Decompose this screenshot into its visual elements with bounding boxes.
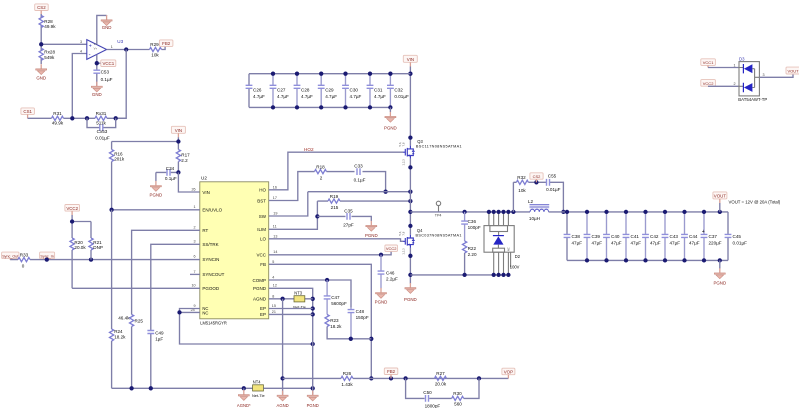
svg-text:1.43k: 1.43k	[341, 382, 353, 387]
svg-text:FB2: FB2	[387, 369, 396, 374]
svg-text:HO: HO	[259, 188, 266, 193]
svg-text:2.2µF: 2.2µF	[386, 276, 398, 281]
svg-text:BSC117N08NS5ATMA1: BSC117N08NS5ATMA1	[416, 145, 462, 149]
svg-text:47µF: 47µF	[689, 241, 700, 246]
svg-text:0.01µF: 0.01µF	[546, 187, 561, 192]
svg-text:L2: L2	[528, 199, 534, 204]
svg-text:26: 26	[192, 187, 196, 191]
svg-text:PGND: PGND	[150, 193, 163, 198]
svg-text:49.9k: 49.9k	[44, 24, 56, 29]
svg-text:R24: R24	[114, 329, 123, 334]
svg-text:PGND: PGND	[404, 297, 417, 302]
svg-text:BAT54AWT-TP: BAT54AWT-TP	[738, 97, 767, 102]
svg-text:VIN: VIN	[175, 128, 182, 133]
svg-text:R22: R22	[468, 246, 477, 251]
svg-text:VOP: VOP	[504, 369, 513, 374]
svg-text:R26: R26	[343, 371, 352, 376]
svg-text:-: -	[89, 53, 91, 59]
svg-text:2.2: 2.2	[181, 158, 188, 163]
svg-text:GND: GND	[92, 92, 102, 97]
svg-text:R30: R30	[453, 391, 462, 396]
svg-text:SYNCIN: SYNCIN	[202, 257, 219, 262]
svg-text:NC: NC	[202, 310, 208, 315]
svg-text:4: 4	[272, 276, 274, 280]
svg-text:LO: LO	[260, 237, 267, 242]
svg-text:Net-Tie: Net-Tie	[252, 393, 265, 398]
svg-text:R23: R23	[330, 318, 339, 323]
svg-text:20.0k: 20.0k	[435, 382, 447, 387]
svg-text:C27: C27	[277, 88, 286, 93]
svg-text:RT: RT	[202, 228, 208, 233]
svg-text:NC: NC	[507, 247, 511, 251]
svg-text:47µF: 47µF	[670, 241, 681, 246]
svg-text:+: +	[89, 43, 92, 49]
svg-text:2: 2	[194, 226, 196, 230]
svg-text:6: 6	[194, 255, 196, 259]
svg-text:7: 7	[194, 270, 196, 274]
svg-text:BSC037N08NS5ATMA1: BSC037N08NS5ATMA1	[416, 234, 462, 238]
svg-text:Q4: Q4	[417, 228, 423, 233]
svg-text:10µH: 10µH	[529, 216, 540, 221]
svg-text:+: +	[702, 229, 705, 235]
svg-text:10: 10	[192, 284, 196, 288]
svg-text:C40: C40	[611, 234, 620, 239]
svg-text:BST: BST	[257, 198, 266, 203]
svg-text:FB: FB	[260, 262, 266, 267]
svg-text:12: 12	[273, 284, 277, 288]
svg-text:C26: C26	[253, 88, 262, 93]
svg-text:4.7µF: 4.7µF	[277, 94, 289, 99]
svg-text:1µF: 1µF	[155, 337, 163, 342]
svg-text:0.01µF: 0.01µF	[733, 241, 748, 246]
svg-text:R21: R21	[93, 240, 102, 245]
svg-text:R25: R25	[135, 319, 144, 324]
svg-text:3: 3	[80, 40, 82, 44]
svg-text:215: 215	[331, 205, 339, 210]
svg-text:3: 3	[763, 73, 765, 77]
svg-text:C42: C42	[650, 234, 659, 239]
svg-text:R32: R32	[517, 175, 526, 180]
svg-text:0.1µF: 0.1µF	[165, 176, 177, 181]
svg-text:4.7µF: 4.7µF	[350, 94, 362, 99]
svg-text:CS2: CS2	[533, 174, 542, 179]
svg-text:C55: C55	[548, 173, 557, 178]
svg-text:1: 1	[734, 63, 736, 67]
svg-text:U2: U2	[201, 176, 207, 181]
svg-text:Rx28: Rx28	[44, 50, 55, 55]
svg-text:ILIM: ILIM	[257, 227, 266, 232]
svg-text:C28: C28	[301, 88, 310, 93]
svg-text:COMP: COMP	[253, 278, 267, 283]
svg-text:DNP: DNP	[93, 245, 103, 250]
svg-text:V+: V+	[94, 46, 98, 50]
svg-text:SW: SW	[259, 214, 267, 219]
svg-text:4.7µF: 4.7µF	[325, 94, 337, 99]
svg-text:16: 16	[273, 185, 277, 189]
svg-text:C46: C46	[386, 270, 395, 275]
svg-text:0.1µF: 0.1µF	[101, 77, 113, 82]
svg-text:C29: C29	[325, 88, 334, 93]
svg-text:EP: EP	[260, 312, 266, 317]
svg-text:21: 21	[272, 310, 276, 314]
svg-text:EN/UVLO: EN/UVLO	[202, 208, 222, 213]
svg-text:PGND: PGND	[384, 126, 397, 131]
svg-text:PGND: PGND	[365, 233, 378, 238]
svg-text:0.01µF: 0.01µF	[95, 135, 110, 140]
svg-text:C44: C44	[689, 234, 698, 239]
svg-text:PGND: PGND	[307, 403, 319, 408]
svg-text:U3: U3	[117, 39, 123, 44]
svg-text:47µF: 47µF	[611, 241, 622, 246]
svg-text:NT4: NT4	[253, 379, 261, 384]
svg-text:C30: C30	[350, 88, 359, 93]
svg-text:VCC2: VCC2	[66, 206, 78, 211]
svg-text:1800pF: 1800pF	[425, 404, 441, 408]
svg-text:AGND: AGND	[253, 297, 267, 302]
svg-text:18.2k: 18.2k	[330, 324, 342, 329]
svg-text:4.7µF: 4.7µF	[253, 94, 265, 99]
svg-text:3: 3	[194, 240, 196, 244]
svg-text:D2: D2	[515, 254, 521, 259]
svg-text:C33: C33	[354, 163, 363, 168]
svg-text:0: 0	[22, 263, 25, 268]
svg-text:47µF: 47µF	[650, 241, 661, 246]
svg-text:201k: 201k	[114, 157, 125, 162]
svg-text:47µF: 47µF	[592, 241, 603, 246]
svg-text:EP: EP	[260, 306, 266, 311]
svg-text:Rx31: Rx31	[96, 111, 107, 116]
svg-text:PGND: PGND	[375, 299, 388, 304]
svg-text:560: 560	[454, 401, 462, 406]
svg-text:8: 8	[272, 294, 274, 298]
svg-text:LM5145RGYR: LM5145RGYR	[200, 321, 227, 326]
svg-text:C49: C49	[155, 331, 164, 336]
svg-text:10k: 10k	[518, 188, 526, 193]
svg-text:47µF: 47µF	[631, 241, 642, 246]
svg-text:Sync_Out: Sync_Out	[2, 254, 18, 258]
svg-text:VCC: VCC	[256, 253, 266, 258]
svg-text:11: 11	[273, 225, 277, 229]
svg-text:C50: C50	[423, 390, 432, 395]
svg-text:HO2: HO2	[304, 147, 314, 152]
svg-text:13: 13	[273, 234, 277, 238]
svg-text:0.1µF: 0.1µF	[354, 177, 366, 182]
svg-text:VOUT: VOUT	[714, 194, 727, 199]
svg-text:0.01µF: 0.01µF	[394, 94, 409, 99]
svg-text:C47: C47	[331, 295, 340, 300]
svg-text:15: 15	[272, 304, 276, 308]
svg-text:R27: R27	[436, 371, 445, 376]
svg-text:1: 1	[111, 45, 113, 49]
svg-text:VCC1: VCC1	[703, 60, 714, 65]
svg-text:2: 2	[734, 82, 736, 86]
svg-text:GND: GND	[36, 76, 46, 81]
svg-text:AGND: AGND	[277, 403, 289, 408]
svg-text:1,2,3: 1,2,3	[402, 159, 406, 166]
svg-text:100V: 100V	[510, 265, 520, 270]
svg-text:20.0k: 20.0k	[74, 245, 86, 250]
svg-text:VIN: VIN	[202, 190, 210, 195]
svg-text:46.4k: 46.4k	[118, 316, 130, 321]
svg-text:C36: C36	[468, 219, 477, 224]
svg-text:R28: R28	[44, 19, 53, 24]
svg-text:1: 1	[194, 205, 196, 209]
svg-text:VOUT = 12V @ 20A (Total): VOUT = 12V @ 20A (Total)	[729, 200, 781, 205]
svg-text:R18: R18	[316, 164, 325, 169]
svg-text:C34: C34	[166, 166, 175, 171]
svg-text:7,8: 7,8	[401, 142, 405, 146]
svg-text:C43: C43	[670, 234, 679, 239]
svg-text:220µF: 220µF	[709, 241, 722, 246]
svg-text:1,2,3: 1,2,3	[402, 248, 406, 255]
svg-text:7,8: 7,8	[401, 231, 405, 235]
svg-text:100pF: 100pF	[468, 225, 481, 230]
svg-text:18.2k: 18.2k	[114, 335, 126, 340]
svg-text:FB2: FB2	[162, 41, 171, 46]
svg-text:CS2: CS2	[37, 5, 46, 10]
svg-text:R19: R19	[330, 194, 339, 199]
svg-text:2.20: 2.20	[468, 252, 477, 257]
svg-text:C37: C37	[709, 234, 718, 239]
svg-text:NT3: NT3	[294, 291, 302, 296]
svg-text:SS/TRK: SS/TRK	[202, 242, 218, 247]
svg-text:49.9k: 49.9k	[52, 121, 64, 126]
svg-text:GND: GND	[102, 25, 112, 30]
svg-text:C45: C45	[733, 234, 742, 239]
svg-text:C31: C31	[374, 88, 383, 93]
svg-text:VCC1: VCC1	[102, 61, 114, 66]
svg-text:PGND: PGND	[253, 286, 267, 291]
svg-text:5600pF: 5600pF	[331, 301, 347, 306]
svg-text:14: 14	[273, 250, 277, 254]
svg-text:Q3: Q3	[417, 139, 423, 144]
svg-text:TP4: TP4	[435, 214, 442, 218]
svg-text:C35: C35	[344, 208, 353, 213]
svg-text:R29: R29	[150, 42, 159, 47]
svg-text:150pF: 150pF	[356, 315, 369, 320]
svg-text:4: 4	[80, 49, 82, 53]
svg-text:VIN: VIN	[407, 57, 414, 62]
svg-text:2: 2	[320, 176, 323, 181]
svg-text:549k: 549k	[44, 55, 55, 60]
svg-text:511k: 511k	[96, 121, 106, 126]
svg-text:R31: R31	[53, 111, 62, 116]
svg-text:C32: C32	[394, 88, 403, 93]
svg-text:PGND: PGND	[713, 281, 726, 286]
svg-text:5: 5	[272, 260, 274, 264]
svg-text:VCC2: VCC2	[386, 246, 397, 251]
svg-text:47µF: 47µF	[572, 241, 583, 246]
svg-text:C48: C48	[356, 309, 365, 314]
svg-text:C53: C53	[101, 69, 110, 74]
svg-text:VCC2: VCC2	[703, 81, 714, 86]
svg-text:C41: C41	[631, 234, 640, 239]
svg-text:VOUT: VOUT	[787, 69, 799, 74]
svg-text:R20: R20	[74, 240, 83, 245]
svg-text:CS1: CS1	[23, 109, 32, 114]
svg-text:4.7µF: 4.7µF	[301, 94, 313, 99]
svg-text:C38: C38	[572, 234, 581, 239]
svg-text:R16: R16	[114, 151, 123, 156]
svg-text:17: 17	[273, 196, 277, 200]
svg-text:R17: R17	[181, 152, 190, 157]
svg-text:AGND*: AGND*	[237, 403, 251, 408]
svg-text:D3: D3	[739, 57, 745, 62]
svg-text:10k: 10k	[151, 52, 159, 57]
svg-text:27pF: 27pF	[343, 222, 354, 227]
svg-text:SYNCOUT: SYNCOUT	[202, 272, 224, 277]
svg-text:C39: C39	[592, 234, 601, 239]
svg-text:19: 19	[273, 212, 277, 216]
svg-text:4.7µF: 4.7µF	[374, 94, 386, 99]
svg-text:Cx53: Cx53	[97, 129, 108, 134]
svg-text:R33: R33	[20, 253, 29, 258]
svg-text:PGOOD: PGOOD	[202, 286, 220, 291]
